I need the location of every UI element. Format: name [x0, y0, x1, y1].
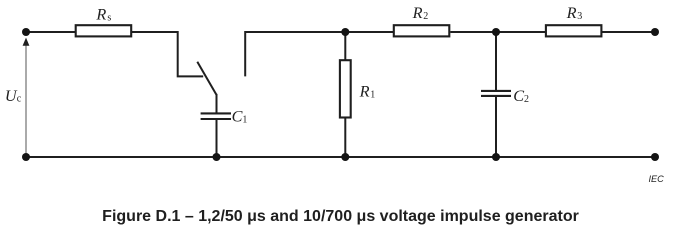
resistor R2 — [394, 25, 450, 36]
label R2 — [412, 4, 429, 22]
wire Rs to switch corner — [132, 32, 203, 76]
source Uc line — [25, 45, 27, 157]
svg-text:C: C — [232, 108, 243, 126]
node dot C2 bottom — [492, 153, 500, 161]
svg-text:Figure D.1 – 1,2/50 μs and 10/: Figure D.1 – 1,2/50 μs and 10/700 μs vol… — [102, 208, 579, 225]
wire C1 to bottom rail — [216, 120, 218, 157]
label Rs — [95, 5, 111, 23]
resistor R1 — [340, 60, 351, 117]
svg-text:2: 2 — [524, 94, 529, 105]
terminal dot output top — [651, 28, 659, 36]
svg-text:R: R — [359, 83, 370, 101]
resistor Rs — [76, 25, 132, 36]
node dot source top — [22, 28, 30, 36]
label R3 — [566, 4, 583, 22]
wire top-left from source to Rs — [26, 31, 76, 33]
wire right switch contact — [245, 32, 345, 76]
svg-text:1: 1 — [242, 115, 247, 126]
node dot C1 bottom — [213, 153, 221, 161]
wire C2 node to R3 — [496, 31, 546, 33]
capacitor C1 — [201, 113, 231, 119]
svg-text:s: s — [107, 12, 111, 23]
svg-text:1: 1 — [370, 90, 375, 101]
node dot C2 top — [492, 28, 500, 36]
svg-text:3: 3 — [577, 11, 582, 22]
svg-text:2: 2 — [423, 11, 428, 22]
wire R1 top — [344, 32, 346, 60]
source Uc arrow head — [23, 38, 30, 46]
svg-text:C: C — [513, 87, 524, 105]
svg-text:R: R — [412, 4, 423, 22]
node dot source bottom — [22, 153, 30, 161]
label C2 — [513, 87, 529, 105]
wire R2 to C2 node — [450, 31, 496, 33]
svg-text:R: R — [95, 5, 106, 23]
wire R1 bottom — [344, 118, 346, 158]
wire R3 to output — [602, 31, 655, 33]
label Uc — [5, 87, 22, 105]
svg-text:c: c — [17, 93, 22, 104]
svg-text:IEC: IEC — [649, 174, 665, 184]
label C1 — [232, 108, 248, 126]
resistor R3 — [546, 25, 602, 36]
wire C2 top — [495, 32, 497, 90]
switch blade S — [197, 62, 216, 95]
svg-text:R: R — [566, 4, 577, 22]
label R1 — [359, 83, 376, 101]
wire top mid to R2 — [345, 31, 393, 33]
wire blade to C1 — [216, 94, 218, 113]
node dot R1 top — [341, 28, 349, 36]
node dot R1 bottom — [341, 153, 349, 161]
terminal dot output bottom — [651, 153, 659, 161]
capacitor C2 — [481, 91, 511, 96]
wire C2 bottom — [495, 97, 497, 157]
wire bottom rail — [26, 156, 655, 158]
